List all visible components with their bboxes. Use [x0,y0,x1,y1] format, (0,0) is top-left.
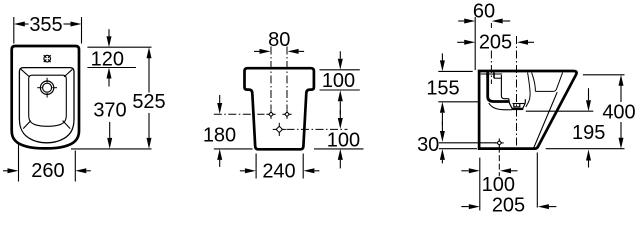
rim underside line [481,73,503,75]
dim 240 right extension line [302,154,304,179]
svg-text:100: 100 [322,70,355,92]
rim-top extension line y67 [87,67,136,69]
fixing holes horizontal centerline [214,113,265,115]
top extension line y47 [87,46,151,48]
svg-text:525: 525 [132,91,165,113]
dim 155 upper arrow [440,53,445,71]
dim 30 lower arrow [440,149,445,164]
faucet hole right mark [493,72,495,78]
dim label 205 top [479,31,512,53]
rim overhang underside and tangent [535,73,562,92]
dim label 60 [473,1,495,23]
dim 100u lower arrow [338,90,343,114]
dim 100l upper arrow [338,110,343,129]
dim 525 lower arrow [147,113,152,149]
dim 400 top extension line [583,74,625,76]
faucet hole deck ledge [494,77,501,79]
svg-text:120: 120 [91,48,124,70]
dim 260 left extension line [18,144,20,182]
svg-text:155: 155 [426,77,459,99]
svg-text:400: 400 [602,101,635,123]
dim 195 lower arrow [586,150,591,168]
dim 260 right extension line [74,151,76,182]
dim 100b left arrow [461,168,480,173]
bowl back wall [488,72,509,101]
dim label 355 [29,14,62,36]
dim 100u bottom extension line [320,89,360,91]
fixing hole centerline left [270,47,272,110]
dim 205t right arrow [517,40,534,45]
svg-text:205: 205 [492,195,525,217]
dim label 195 [572,122,605,144]
dim label 100 upper [322,70,355,92]
dim 205b right extension line [536,153,538,208]
dim 205b right arrow [538,204,557,209]
dim label 120 [91,48,124,70]
bowl right wall outer line [532,73,536,92]
bottom back extension line [479,158,481,211]
dim label 100 bottom [482,174,515,196]
fixing hole marker right [282,110,291,119]
bidet top view body outline [12,46,79,148]
dim 240 left arrow [240,168,256,173]
svg-text:80: 80 [268,29,290,51]
trap outline [509,99,526,109]
dim 155 bottom extension line [438,101,479,103]
dim label 80 [268,29,290,51]
drain centerline side view [516,36,518,147]
dim 100l floor extension line [314,148,364,150]
svg-text:370: 370 [93,100,126,122]
fixing hole symbol [44,55,51,62]
dim label 100 lower [327,129,360,151]
fixing point extension dash [498,147,500,177]
dim 355 right extension line [81,17,83,44]
faucet centerline side view lower [490,51,492,85]
rim bottom feature line / dim 195 extension [526,110,594,112]
top view rim outer boundary [19,68,74,143]
floor line right of side view [546,148,625,150]
dim 120 lower arrow [107,68,112,87]
svg-text:30: 30 [417,134,439,156]
dim 205b left arrow [461,204,480,209]
faucet centerline side view upper [490,23,492,30]
rim corner diagonal top-right [64,69,72,77]
svg-text:355: 355 [29,14,62,36]
dim 260 left arrow [3,168,19,173]
drain marker [273,123,286,136]
dim 525 upper arrow [147,47,152,92]
dim 400 upper arrow [619,75,624,102]
bidet side view body outline [479,71,576,149]
svg-text:100: 100 [327,129,360,151]
dim 155 lower arrow [440,102,445,125]
dim 240 right arrow [303,168,319,173]
rim corner diagonal bottom-right [63,121,71,129]
fixing hole centerline right [286,47,288,110]
dim 240 left extension line [255,154,257,179]
inner slope line [533,92,557,148]
floor extension line left of front view [214,148,253,150]
svg-text:180: 180 [203,125,236,147]
dim 80 left arrow [254,49,271,54]
rim corner diagonal bottom-left [23,121,31,129]
dim 100u top extension line [320,69,360,71]
dim 100u upper arrow [338,51,343,70]
dim 180 lower arrow [217,149,222,167]
svg-text:195: 195 [572,122,605,144]
svg-text:260: 260 [31,160,64,182]
dim label 260 [31,160,64,182]
top view bowl opening [29,75,67,126]
dim 60 right arrow [492,19,511,24]
dim 400 lower arrow [619,122,624,149]
faucet hole left wall top [486,72,489,78]
faucet hole crosshair [37,78,57,98]
floor line left of side view [439,148,477,150]
dim 80 right arrow [288,49,305,54]
dim 370 lower stub and arrow [107,122,112,149]
back extension line [474,17,476,70]
dim label 205 bottom [492,195,525,217]
dim label 370 [93,100,126,122]
bowl outer bottom line [489,103,512,110]
svg-text:60: 60 [473,1,495,23]
dim 205t left arrow [457,40,475,45]
dim 355 left arrow [14,22,29,27]
fixing hole marker left [266,110,275,119]
dim label 155 [426,77,459,99]
dim 195 upper arrow [586,88,591,111]
dim label 30 [417,134,439,156]
svg-text:240: 240 [262,160,295,182]
dim 355 left extension line [13,17,15,44]
svg-text:205: 205 [479,31,512,53]
dim 120 upper arrow [107,29,112,47]
drain horizontal centerline [287,128,348,130]
side fixing point marker [495,138,504,147]
rim corner diagonal top-left [21,69,30,77]
skirt line / dim 30 extension [439,142,496,144]
dim 100b right arrow [500,168,518,173]
bidet front view body outline [245,68,314,149]
bowl right wall inner line [526,73,530,107]
dim label 400 [602,101,635,123]
dim 355 right arrow [64,22,82,27]
dim label 240 [262,160,295,182]
dim 180 upper arrow [217,95,222,114]
dim 260 right arrow [75,168,91,173]
bottom extension line y149 [71,148,152,150]
dim label 180 [203,125,236,147]
dim 30 upper arrow [440,122,445,143]
dim 100l lower arrow [338,149,343,169]
svg-text:100: 100 [482,174,515,196]
dim 60 left arrow [458,19,475,24]
bowl back inner line [501,75,508,99]
dim 155 top extension line [438,70,472,72]
dim label 525 [132,91,165,113]
